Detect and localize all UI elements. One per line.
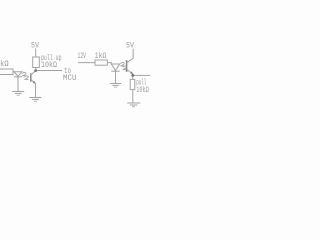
phototransistor Q1 emitter with arrow <box>31 80 35 83</box>
svg-text:10kΩ: 10kΩ <box>136 86 149 95</box>
light arrows U1 <box>23 72 29 79</box>
svg-text:5V: 5V <box>31 41 39 50</box>
node B junction dot (emitter / pull-down / output) <box>131 74 134 77</box>
wire collector Q2 to 5V <box>132 49 134 59</box>
wire resistor R1 to LED D1 anode <box>13 71 14 73</box>
wire node B to right edge (output) <box>134 74 150 76</box>
phototransistor Q2 collector <box>127 58 133 62</box>
wire node A to MCU <box>37 70 62 72</box>
LED D2 (optocoupler U2 emitter diode) <box>111 64 119 71</box>
phototransistor Q2 emitter with arrow <box>127 70 133 74</box>
ground (LED D1) <box>12 91 24 93</box>
wire LED D2 cathode to ground <box>115 71 117 83</box>
phototransistor Q2 base bar <box>126 60 128 72</box>
ground (emitter Q1) <box>30 97 42 99</box>
wire junction to pull-up resistor <box>35 68 37 71</box>
ground (LED D2) <box>110 83 122 85</box>
wire 12V to resistor R3 <box>78 62 95 64</box>
node A junction dot (collector / pull-up / MCU) <box>34 69 37 72</box>
svg-text:12V: 12V <box>78 52 87 61</box>
wire LED D1 cathode to ground <box>17 77 19 91</box>
svg-text:5V: 5V <box>126 41 134 50</box>
svg-text:1kΩ: 1kΩ <box>0 60 9 69</box>
light arrows U2 <box>121 62 127 69</box>
wire resistor R3 to LED D2 <box>107 63 111 64</box>
phototransistor Q1 collector <box>31 71 36 75</box>
resistor R3 1k (right) <box>95 60 107 65</box>
wire 5V to resistor R2 <box>35 49 37 58</box>
resistor R1 (input 1k, left, cut off at edge) <box>0 69 13 75</box>
LED D1 (optocoupler U1 emitter diode) <box>14 72 22 77</box>
resistor R2 pull up 10k <box>33 57 40 68</box>
wire emitter Q1 to ground <box>35 83 37 97</box>
phototransistor Q1 base bar <box>30 73 32 81</box>
svg-text:10kΩ: 10kΩ <box>41 61 57 70</box>
svg-text:MCU: MCU <box>63 74 77 83</box>
svg-text:1kΩ: 1kΩ <box>95 52 107 61</box>
wire resistor R4 to ground <box>132 90 134 103</box>
wire emitter Q2 down to resistor R4 <box>132 74 134 80</box>
resistor R4 pull down 10k <box>130 79 135 89</box>
ground (R4) <box>127 102 140 104</box>
